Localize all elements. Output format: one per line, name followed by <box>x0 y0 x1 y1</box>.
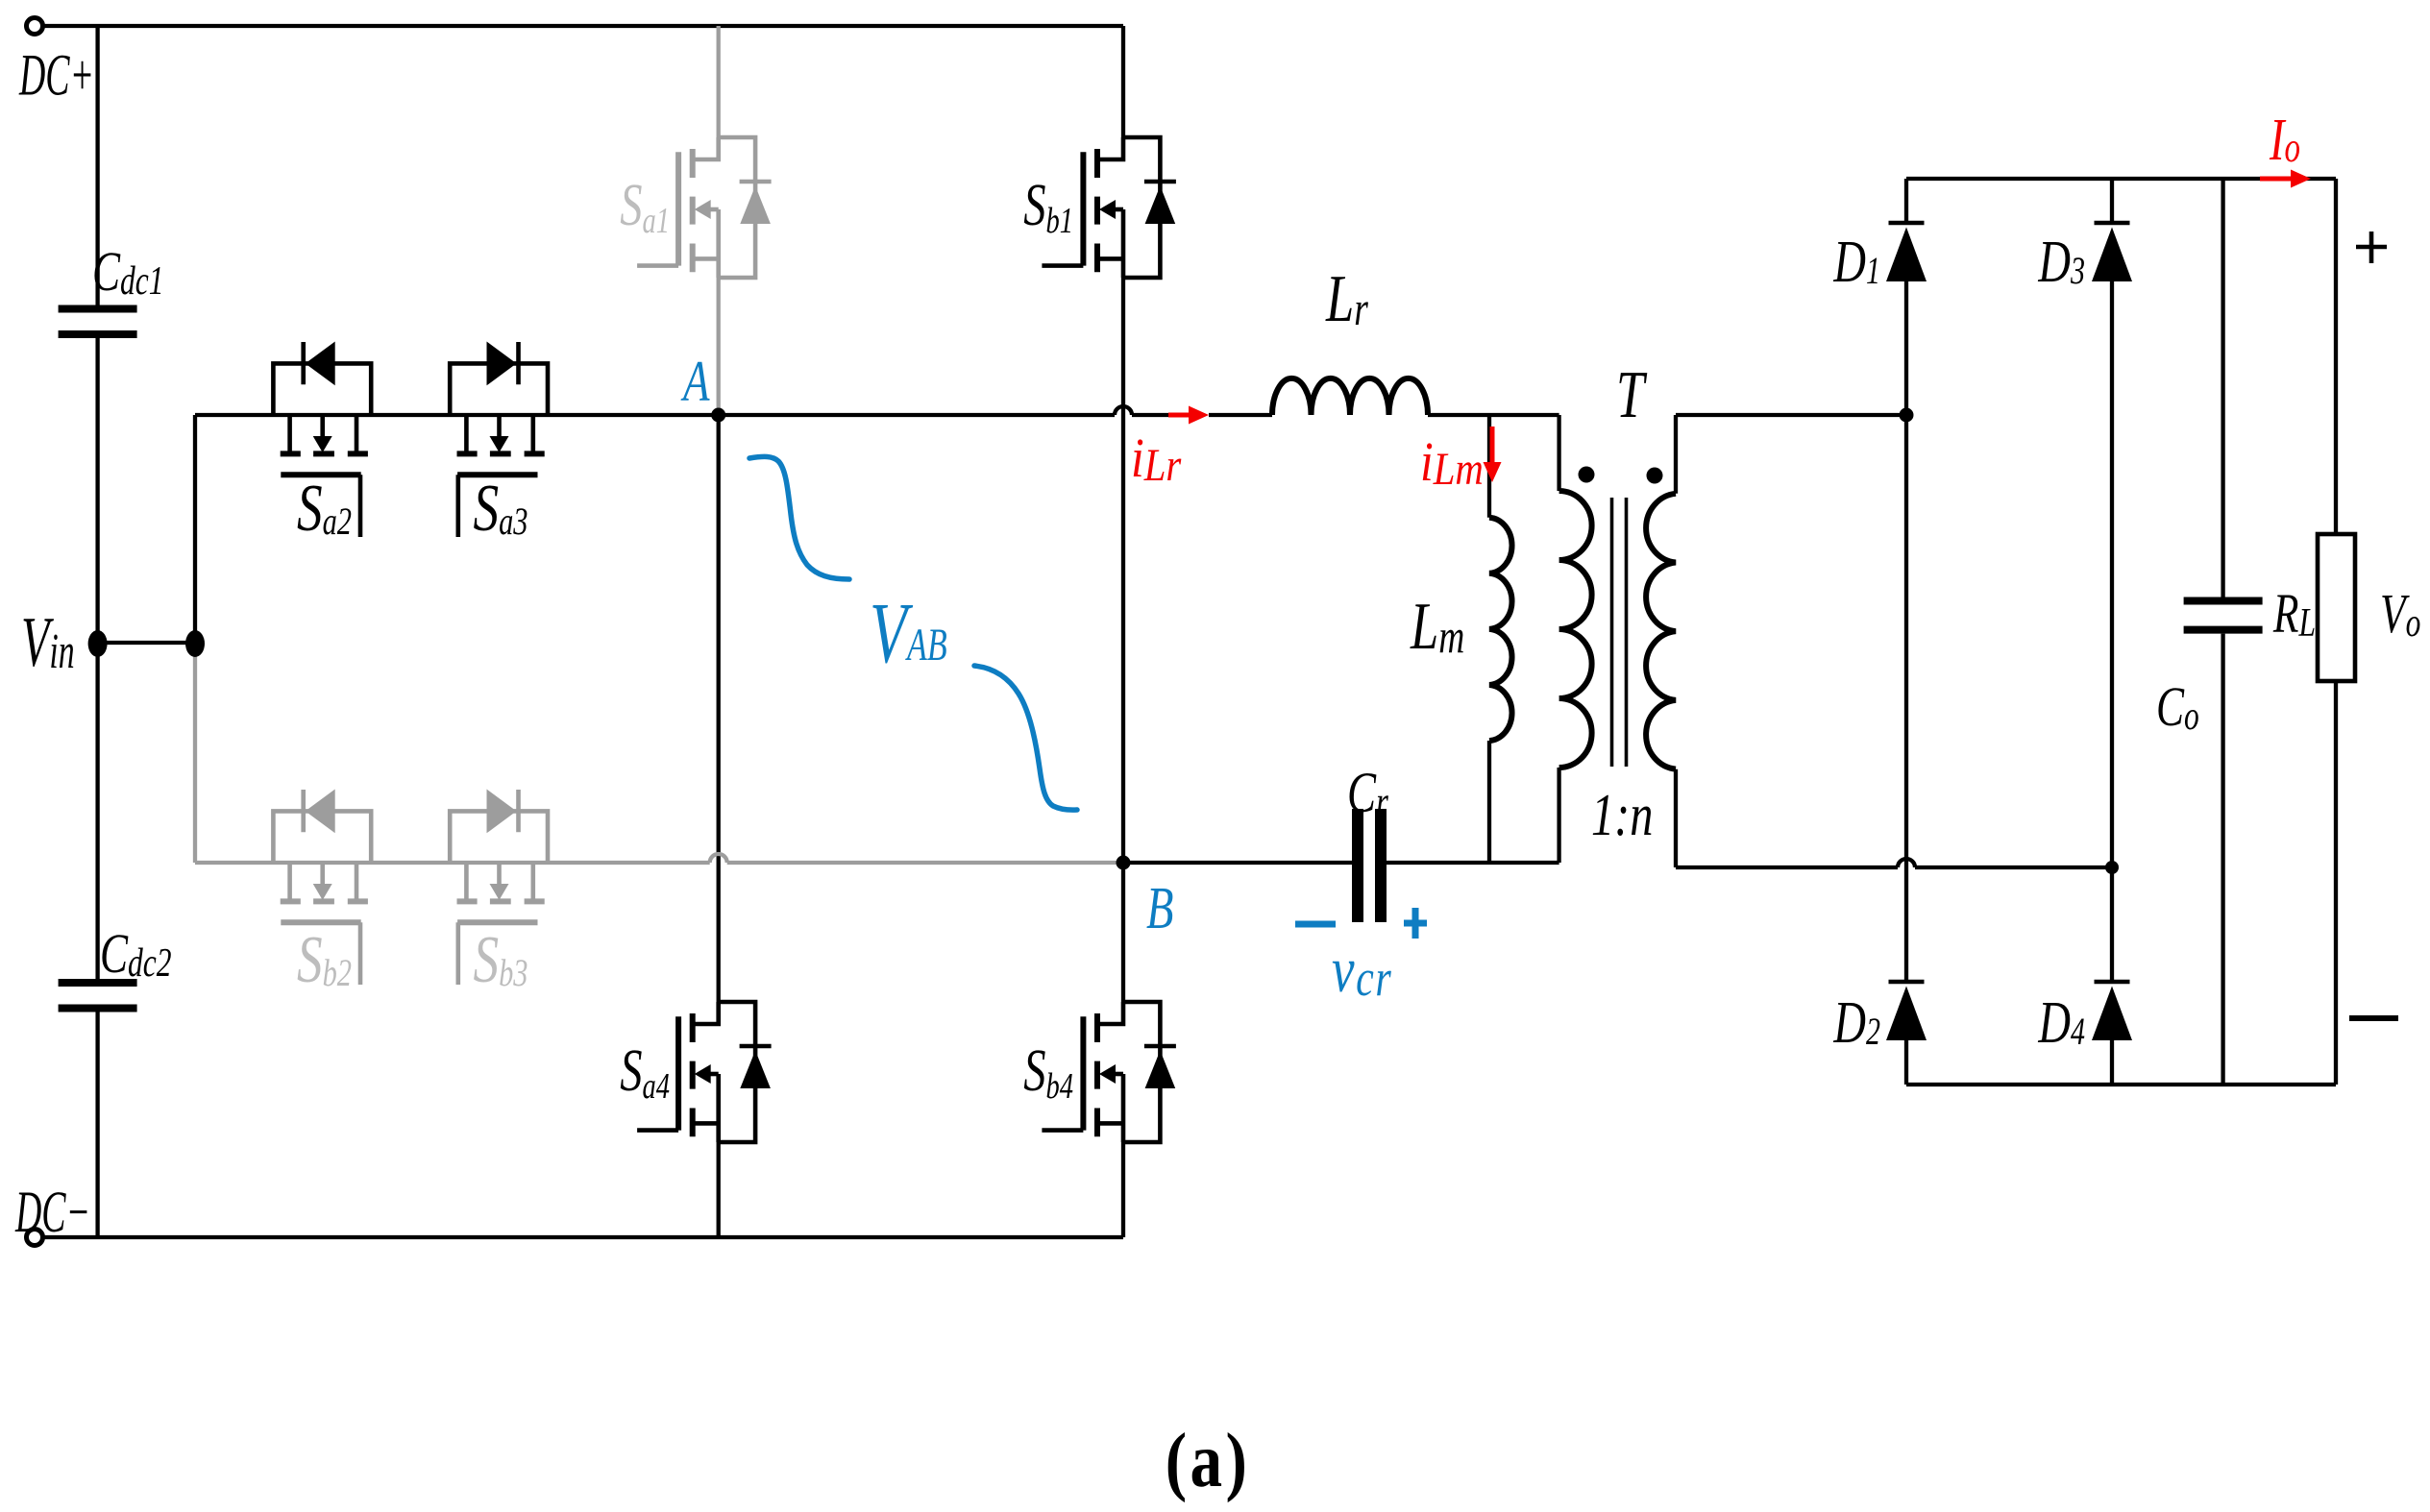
svg-text:DC−: DC− <box>14 1180 90 1244</box>
svg-text:T: T <box>1616 358 1648 432</box>
svg-text:1:n: 1:n <box>1591 782 1653 848</box>
svg-text:A: A <box>680 351 710 414</box>
svg-text:DC+: DC+ <box>18 42 94 107</box>
svg-text:B: B <box>1146 875 1173 941</box>
svg-text:(a): (a) <box>1166 1418 1250 1503</box>
